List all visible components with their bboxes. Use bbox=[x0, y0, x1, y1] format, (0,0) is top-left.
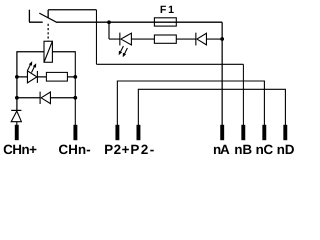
diode D5 bbox=[195, 33, 197, 46]
label nC bbox=[257, 145, 273, 154]
junction dot right rail row2 bbox=[73, 75, 77, 79]
LED D4 (output indicator) bbox=[119, 33, 121, 46]
label nA bbox=[214, 145, 230, 154]
wire: left fixed contact L-shape bbox=[29, 10, 43, 22]
resistor R1 bbox=[46, 72, 67, 81]
wire: left block right rail down to CHn- bbox=[74, 51, 76, 125]
junction dot left rail row3 bbox=[15, 96, 19, 100]
diode D2 (reverse protection) bbox=[39, 92, 41, 104]
terminal nD bbox=[283, 125, 287, 140]
fuse F1 bbox=[154, 18, 176, 26]
LED D1 emission arrows bbox=[28, 64, 35, 72]
terminal CHn- bbox=[73, 125, 77, 140]
label nD bbox=[278, 145, 294, 154]
terminal P2+ bbox=[115, 125, 119, 140]
label CHn+ bbox=[4, 145, 37, 154]
wire: row2 left segments bbox=[17, 76, 75, 78]
LED D4 emission arrows bbox=[120, 46, 127, 54]
resistor R2 bbox=[154, 35, 176, 43]
junction dot main wire / LED branch bbox=[107, 20, 111, 24]
node: upper throw contact stub bbox=[47, 10, 49, 18]
dashed actuator link to coil bbox=[47, 24, 49, 41]
terminal nB bbox=[241, 125, 245, 140]
wire: main output wire through fuse bbox=[56, 21, 222, 23]
terminal P2- bbox=[137, 125, 141, 140]
terminal nA bbox=[220, 125, 224, 140]
LED D1 (input indicator) bbox=[27, 71, 36, 83]
terminal nC bbox=[262, 125, 266, 140]
wire: row3 segments bbox=[17, 97, 75, 99]
wire: stub to CHn+ terminal bbox=[16, 122, 18, 126]
relay coil bbox=[44, 41, 52, 62]
wire: line B P2+ to nC bbox=[117, 81, 264, 125]
wire: left block top rail bbox=[17, 51, 75, 53]
label nB bbox=[235, 145, 251, 154]
wire: line A from upper throw to nB bbox=[96, 63, 243, 65]
switch blade (relay contact) bbox=[39, 13, 56, 22]
diode D3 (series input diode) bbox=[11, 109, 21, 111]
wire: upper throw line to right bbox=[48, 9, 96, 11]
wire: line C P2- to nD bbox=[138, 89, 285, 125]
label F1 bbox=[161, 6, 174, 13]
label P2+ bbox=[105, 145, 129, 154]
junction dot left rail row2 bbox=[15, 75, 19, 79]
wire: vertical down to terminal nB bbox=[242, 64, 244, 125]
wire: branch vertical from dot to row2 bbox=[108, 22, 110, 39]
terminal CHn+ bbox=[15, 125, 19, 140]
label P2- bbox=[131, 145, 153, 154]
wire: vertical from upper throw down bbox=[95, 10, 97, 65]
wire: row2 right block segments bbox=[109, 38, 222, 40]
label CHn- bbox=[59, 145, 90, 154]
junction dot right rail row3 bbox=[73, 96, 77, 100]
wire: left block left rail bbox=[16, 51, 18, 110]
junction dot row2 / nA vertical bbox=[220, 37, 224, 41]
wire: vertical from main wire down to terminal nA bbox=[221, 22, 223, 125]
